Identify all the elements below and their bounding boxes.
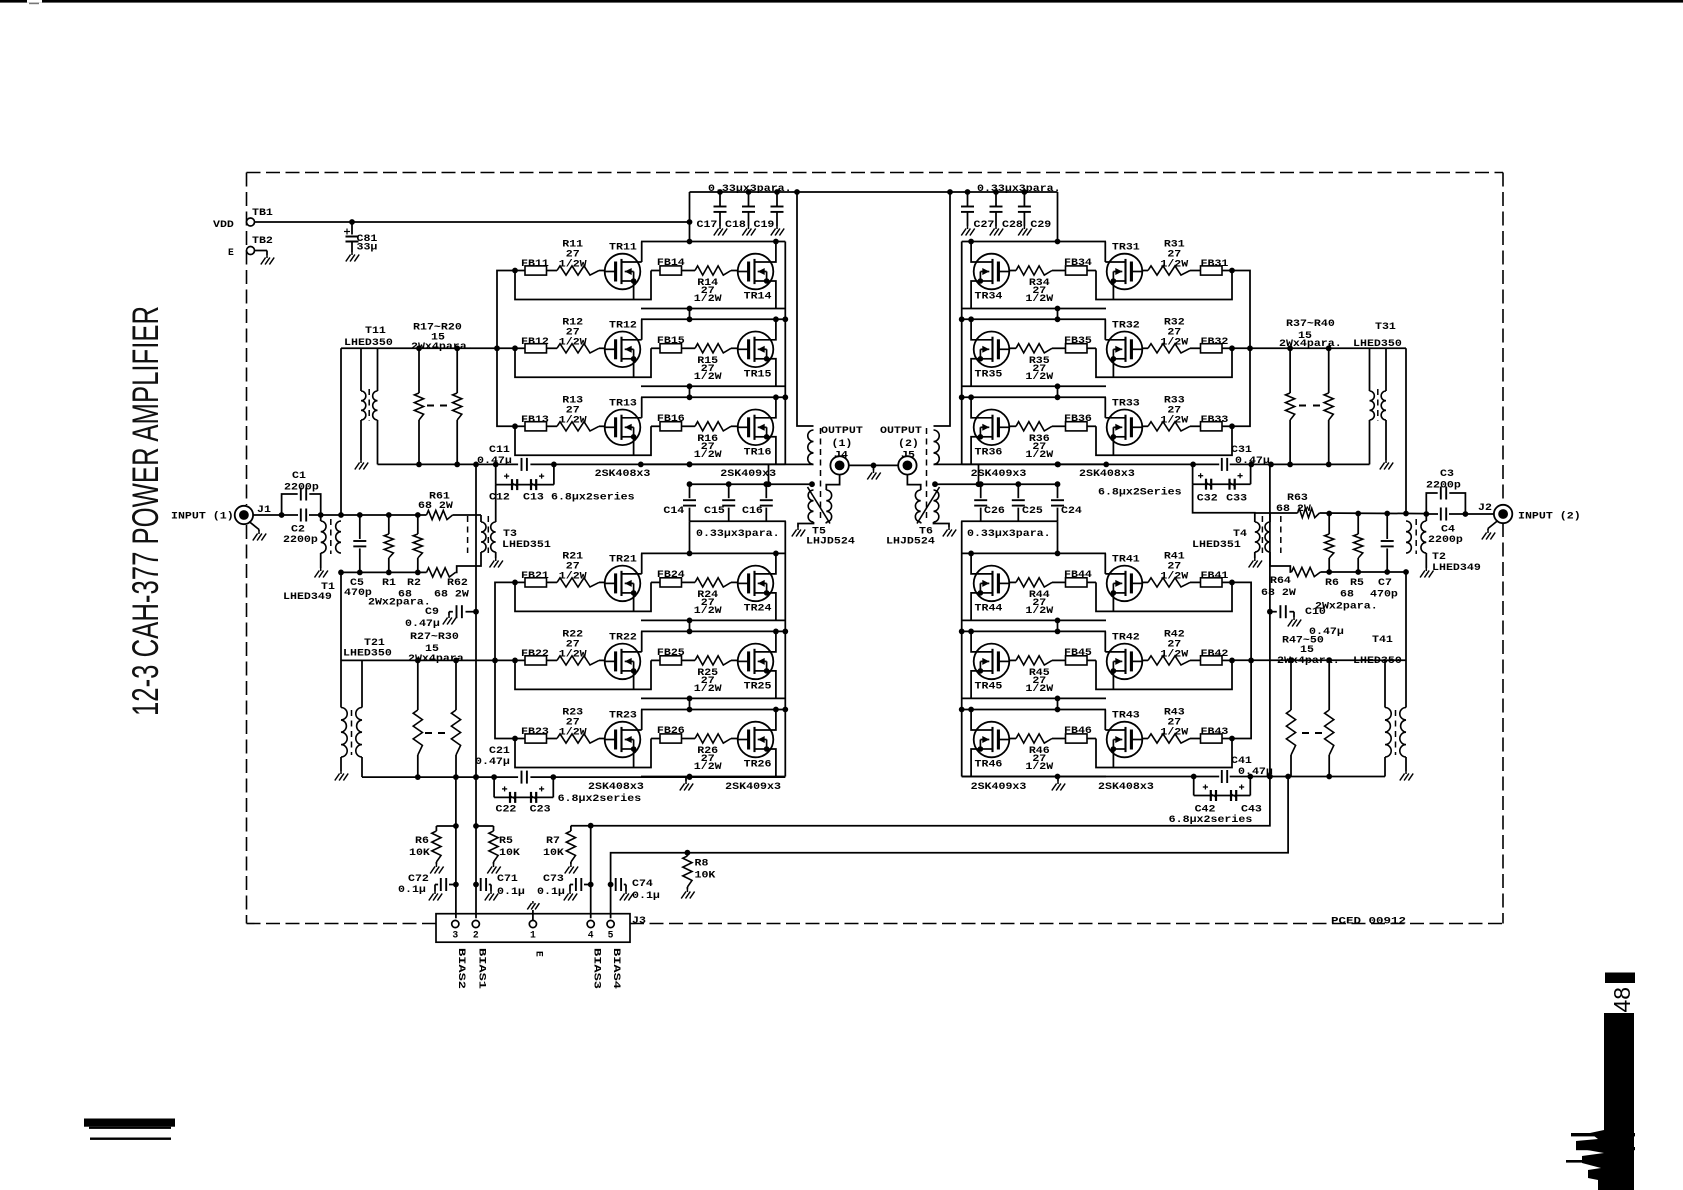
svg-text:C41: C41 (1231, 755, 1252, 766)
capacitor C11 0.47u (477, 444, 527, 471)
node outer bus left lower (782, 629, 788, 713)
label R15 (694, 355, 722, 382)
svg-text:TR35: TR35 (975, 368, 1003, 379)
transformer T5 secondary (826, 490, 831, 522)
label R14 (694, 277, 722, 304)
node row bottom TR24 (687, 618, 693, 624)
ferrite bead FB41 (1201, 570, 1229, 587)
svg-text:1/2W: 1/2W (1160, 336, 1188, 347)
resistor R37 15 (1286, 348, 1295, 465)
svg-text:TR44: TR44 (975, 602, 1003, 613)
resistor R46 27 1/2W (1016, 734, 1052, 743)
label R22 (559, 628, 587, 659)
capacitor C42 6.8u (1203, 785, 1216, 802)
svg-text:FB45: FB45 (1064, 647, 1092, 658)
svg-text:FB13: FB13 (521, 414, 549, 425)
svg-text:C11: C11 (489, 444, 510, 455)
wire TR31 source (1112, 281, 1114, 300)
ground C72 (429, 891, 442, 901)
ferrite bead FB43 (1201, 726, 1229, 743)
transistor TR12 (605, 319, 642, 367)
ground J3 E pin (527, 901, 539, 920)
wire bank links left upper (689, 309, 691, 398)
svg-text:6.8μx2series: 6.8μx2series (558, 793, 642, 804)
svg-text:TR42: TR42 (1112, 631, 1140, 642)
resistor R38 15 (1324, 348, 1333, 465)
node rail taps TR31 (968, 239, 1060, 245)
label C17 (697, 219, 718, 230)
wire row bottom TR26 (641, 776, 785, 778)
dashed border frame right (1502, 173, 1504, 924)
svg-text:10K: 10K (695, 870, 716, 881)
ferrite bead FB32 (1201, 336, 1229, 353)
svg-text:BIAS1: BIAS1 (476, 948, 487, 989)
svg-text:LHED351: LHED351 (1192, 539, 1241, 550)
svg-text:TR22: TR22 (609, 631, 637, 642)
capacitor C12 6.8u (504, 474, 517, 491)
wire TR36 drain (971, 397, 972, 418)
page number 48 (1604, 973, 1635, 1125)
svg-text:C10: C10 (1305, 606, 1326, 617)
transistor TR42 (1105, 631, 1142, 679)
capacitor C33 6.8u (1230, 473, 1243, 490)
wire TR23 source (633, 749, 635, 768)
ferrite bead FB11 (521, 258, 549, 275)
wire R13 to TR13 (599, 425, 605, 427)
capacitor C25 0.33u (1012, 484, 1025, 521)
node rail taps TR41 (968, 551, 1060, 557)
wire TR16 source (767, 437, 776, 465)
label J3 (632, 915, 646, 926)
svg-text:C73: C73 (543, 873, 564, 884)
wire TR25 source (767, 671, 776, 699)
resistor R47 15 (1286, 660, 1295, 776)
label R45 (1025, 667, 1053, 694)
ground TB2 (261, 255, 274, 265)
resistor R2 68 (413, 515, 422, 572)
resistor R18 15 (453, 348, 462, 464)
transformer T6 primary upper (934, 430, 940, 464)
resistor R6 68 (1325, 514, 1334, 573)
label C9 (405, 606, 440, 629)
transformer T31 winding A (1381, 348, 1386, 460)
wire T5 feed vertical (797, 192, 814, 426)
ground J2 (1482, 530, 1495, 540)
resistor R7 10K (566, 826, 590, 864)
capacitor C4 2200p (1426, 508, 1465, 521)
svg-text:LHED350: LHED350 (344, 337, 393, 348)
transformer T4 winding B (1265, 513, 1270, 556)
node upper source bus left (416, 462, 692, 468)
dashed border frame top (247, 172, 1504, 174)
wire TR11 source (633, 281, 635, 300)
node C4 branch left (1423, 511, 1429, 517)
svg-text:1/2W: 1/2W (1160, 727, 1188, 738)
wire BIAS2 line (455, 777, 457, 918)
wire TR33 drain (1104, 397, 1106, 418)
label C10 (1305, 606, 1344, 637)
wire J2 ground stub (1488, 521, 1498, 531)
wire T4 top link (1193, 484, 1255, 522)
ground R7 (565, 864, 578, 874)
label C4 (1428, 524, 1463, 546)
node FB22 gate bus (512, 658, 518, 664)
label PCED 00912 (1331, 916, 1406, 927)
wire C12 C13 loop (496, 465, 554, 484)
label R33 (1160, 394, 1188, 425)
wire TR24 drain (775, 553, 776, 574)
jack J1 INPUT(1) (235, 506, 253, 524)
label BIAS3 rotated (591, 948, 602, 989)
svg-text:FB12: FB12 (521, 336, 549, 347)
transistor TR43 (1105, 710, 1142, 758)
wire FB16 lead (651, 425, 695, 427)
svg-text:0.47μ: 0.47μ (1309, 626, 1344, 637)
svg-text:1/2W: 1/2W (694, 683, 722, 694)
wire TR42 source (1112, 671, 1114, 690)
wire upper source bus left (378, 463, 814, 465)
node C81 tap (349, 219, 355, 225)
svg-text:FB16: FB16 (657, 413, 685, 424)
label R41 (1160, 550, 1188, 581)
capacitor C19 0.33u (771, 192, 784, 226)
transistor TR24 (738, 566, 775, 614)
svg-text:FB24: FB24 (657, 569, 685, 580)
label LHED351 T4 (1192, 539, 1241, 550)
node rail taps TR42 (968, 629, 1060, 635)
ferrite bead FB25 (657, 647, 685, 665)
transformer T11 winding B (373, 348, 378, 464)
wire R22 to TR22 (599, 659, 605, 661)
ground lower bus right (1052, 777, 1065, 791)
svg-text:FB15: FB15 (657, 335, 685, 346)
wire TR32 drain (1104, 319, 1106, 340)
label C26 (984, 505, 1005, 516)
resistor R1 68 (384, 515, 393, 572)
wire R11 to TR11 (599, 270, 605, 272)
svg-text:LHED349: LHED349 (283, 591, 332, 602)
svg-text:OUTPUT: OUTPUT (821, 425, 863, 436)
node row bottom TR34 (1055, 306, 1061, 312)
label C14 (663, 505, 684, 516)
wire FB31 loop (1096, 271, 1232, 300)
capacitor C21 0.47u (475, 745, 527, 784)
transformer T2 winding A (1421, 514, 1426, 568)
wire BIAS4 line (611, 777, 1289, 919)
wire TR34 drain (971, 242, 972, 263)
node rail taps TR33 (968, 394, 1060, 400)
svg-text:68 2W: 68 2W (434, 589, 469, 600)
ferrite bead FB12 (521, 336, 549, 353)
label R63 (1276, 492, 1311, 514)
transistor TR44 (972, 566, 1009, 614)
wire T6 bottoms (921, 522, 949, 527)
label 0.33ux3para top left (708, 183, 792, 194)
label T1 (321, 581, 335, 592)
label R44 (1025, 589, 1053, 616)
svg-text:0.33μx3para.: 0.33μx3para. (977, 183, 1061, 194)
svg-text:LHED350: LHED350 (1353, 655, 1402, 666)
capacitor C18 0.33u (742, 192, 755, 226)
svg-text:3: 3 (452, 930, 458, 941)
svg-text:R7: R7 (546, 835, 560, 846)
svg-text:1/2W: 1/2W (1160, 259, 1188, 270)
wire J2 to C3C4 (1465, 513, 1494, 515)
terminal TB2 E (228, 235, 273, 258)
svg-text:FB41: FB41 (1201, 570, 1229, 581)
wire FB33 loop (1096, 426, 1232, 455)
ground T6 (943, 527, 956, 537)
svg-text:T21: T21 (364, 637, 385, 648)
wire FB25 lead (651, 659, 695, 661)
svg-text:FB26: FB26 (657, 725, 685, 736)
wire TR23 drain (641, 710, 643, 731)
label R37~R40 (1279, 318, 1342, 349)
ground T5 (792, 527, 805, 537)
svg-text:C24: C24 (1061, 505, 1082, 516)
svg-text:(2): (2) (898, 438, 919, 449)
node input bus bottom right (1326, 569, 1409, 575)
wire FB21 lead (515, 581, 557, 583)
resistor R48 15 (1325, 660, 1334, 776)
label C73 (537, 873, 565, 897)
transformer T4 cores (1262, 516, 1280, 553)
label 2SK408x3 upper right (1079, 468, 1135, 479)
wire FB43 loop (1096, 739, 1232, 768)
wire FB14 lead (651, 270, 695, 272)
wire J1 ground stub (249, 522, 259, 532)
label C28 (1002, 219, 1023, 230)
node bus B right (932, 481, 1060, 487)
resistor R61 68 2W (427, 510, 453, 519)
svg-text:FB23: FB23 (521, 726, 549, 737)
node rail taps TR23 (687, 707, 779, 713)
resistor R64 68 2W (1292, 567, 1321, 576)
node row bottom TR26 (687, 774, 693, 780)
svg-text:C17: C17 (697, 219, 718, 230)
wire lower source bus right (962, 776, 1385, 778)
wire J1 to C1C2 (253, 514, 282, 516)
label OUTPUT (2) J5 (880, 425, 922, 461)
svg-text:C12: C12 (489, 492, 510, 503)
capacitor C74 0.1u (611, 878, 626, 891)
resistor R17 15 (414, 348, 423, 464)
svg-text:2200p: 2200p (283, 534, 318, 545)
label C12 C13 (489, 492, 544, 503)
wire row rail TR11 (641, 241, 785, 243)
wire TR15 drain (775, 319, 776, 340)
svg-text:68 2W: 68 2W (1276, 503, 1311, 514)
svg-text:FB44: FB44 (1064, 569, 1092, 580)
wire row rail TR12 (641, 318, 785, 320)
svg-text:68 2W: 68 2W (418, 500, 453, 511)
transistor TR33 (1105, 397, 1142, 445)
svg-text:C2: C2 (291, 524, 305, 535)
wire T41 riser (1405, 572, 1407, 708)
wire FB13 loop (515, 426, 651, 455)
ferrite bead FB35 (1064, 335, 1092, 353)
label R5 10K (499, 835, 520, 858)
wire FB13 lead (515, 425, 557, 427)
transistor TR23 (605, 710, 642, 758)
wire BIAS1 line (475, 465, 477, 918)
svg-text:2SK408x3: 2SK408x3 (588, 781, 644, 792)
svg-text:BIAS2: BIAS2 (456, 948, 467, 989)
label C22 C23 (496, 804, 551, 815)
wire TR32 source (1112, 359, 1114, 378)
ground C71 (485, 891, 498, 901)
wire TR22 source (633, 671, 635, 690)
label C42 C43 (1195, 804, 1263, 815)
wire R16 to TR16 (731, 425, 738, 427)
wire VDD riser left (689, 192, 691, 242)
svg-text:OUTPUT: OUTPUT (880, 425, 922, 436)
wire gate bus upper right (1232, 271, 1250, 427)
node lower source bus right (1191, 774, 1332, 780)
wire C22 C23 loop (494, 778, 553, 797)
label C27 (974, 219, 995, 230)
transistor TR36 (972, 410, 1009, 458)
wire FB43 lead (1190, 738, 1232, 740)
node rail taps TR22 (687, 629, 779, 635)
label 2SK408x3 upper left (595, 468, 651, 479)
svg-text:FB11: FB11 (521, 258, 549, 269)
svg-text:1/2W: 1/2W (559, 336, 587, 347)
wire TR13 source (633, 437, 635, 456)
transistor TR34 (972, 254, 1009, 302)
capacitor C72 0.1u (435, 878, 456, 891)
wire FB34 lead (1052, 270, 1096, 272)
svg-text:1/2W: 1/2W (694, 371, 722, 382)
resistor R28 15 (451, 660, 460, 777)
label 6.8ux2series lower right (1169, 814, 1253, 825)
wire R45 to TR45 (1009, 659, 1016, 661)
label 6.8ux2series upper left (551, 492, 635, 503)
wire bus C left (690, 520, 786, 522)
wire FB23 loop (515, 739, 651, 768)
label T11 (365, 325, 386, 336)
svg-text:T31: T31 (1375, 321, 1396, 332)
transformer T3 winding A (481, 515, 486, 556)
capacitor C2 2200p (282, 509, 321, 522)
svg-text:TB2: TB2 (252, 235, 273, 246)
svg-text:TR46: TR46 (975, 759, 1003, 770)
ferrite bead FB26 (657, 725, 685, 743)
label R17~R20 (411, 322, 474, 353)
capacitor C7 470p (1381, 514, 1394, 573)
transistor TR22 (605, 631, 642, 679)
wire C1 bracket (282, 494, 321, 515)
wire row rail TR33 (962, 396, 1106, 398)
svg-text:C28: C28 (1002, 219, 1023, 230)
wire R26 to TR26 (731, 738, 738, 740)
node gate bus upper right (1247, 345, 1253, 351)
label R6 10K (409, 835, 430, 858)
node upper source bus right (1055, 462, 1332, 468)
svg-text:2Wx4para.: 2Wx4para. (1277, 655, 1340, 666)
ground C9 (443, 615, 456, 625)
svg-text:R37~R40: R37~R40 (1286, 318, 1335, 329)
transformer T6 secondary (915, 490, 920, 522)
wire R36 to TR36 (1009, 425, 1016, 427)
wire TR43 drain (1104, 710, 1106, 731)
node VDD junction (687, 219, 693, 225)
node gate bus lower right (1248, 658, 1254, 664)
svg-text:0.1μ: 0.1μ (497, 886, 525, 897)
wire TR25 drain (775, 631, 776, 652)
svg-text:R1: R1 (382, 577, 396, 588)
svg-text:1/2W: 1/2W (694, 761, 722, 772)
label INPUT (2) (1518, 511, 1581, 522)
wire TR26 drain (775, 710, 776, 731)
transformer T21 winding A (341, 708, 347, 772)
node gate bus upper left (494, 345, 500, 351)
node C1 branch right (318, 512, 324, 518)
svg-text:C19: C19 (754, 219, 775, 230)
node row bottom TR46 (1055, 774, 1061, 780)
transistor TR31 (1105, 242, 1142, 290)
svg-text:1/2W: 1/2W (694, 605, 722, 616)
svg-text:C33: C33 (1226, 493, 1247, 504)
svg-text:12-3 CAH-377 POWER AMPLIFIER: 12-3 CAH-377 POWER AMPLIFIER (124, 306, 166, 716)
wire row rail TR23 (641, 709, 785, 711)
node bus B left (687, 481, 815, 487)
wire row bottom TR46 (962, 776, 1106, 778)
svg-text:T2: T2 (1432, 551, 1446, 562)
ellipsis R17-R20 (427, 405, 447, 407)
ground C27 (961, 226, 974, 236)
transistor TR14 (738, 254, 775, 302)
svg-text:C14: C14 (663, 505, 684, 516)
node rail taps TR13 (687, 394, 779, 400)
wire C42 C43 loop (1194, 777, 1251, 796)
wire T31 riser (1405, 348, 1407, 513)
wire R41 to TR41 (1142, 581, 1148, 583)
wire FB45 lead (1052, 659, 1096, 661)
wire row rail TR41 (962, 552, 1106, 554)
svg-text:T4: T4 (1233, 528, 1247, 539)
node FB12 gate bus (512, 345, 518, 351)
wire TR35 drain (971, 319, 972, 340)
wire TR45 source (971, 671, 980, 699)
transistor TR41 (1105, 553, 1142, 601)
svg-text:FB35: FB35 (1064, 335, 1092, 346)
svg-text:C23: C23 (530, 804, 551, 815)
svg-text:1/2W: 1/2W (1025, 761, 1053, 772)
node C3 branch right (1463, 511, 1469, 517)
resistor R8 10K (683, 853, 692, 889)
svg-text:FB36: FB36 (1064, 413, 1092, 424)
transistor TR35 (972, 332, 1009, 380)
wire TR26 source (767, 749, 776, 777)
label C32 C33 (1197, 493, 1248, 504)
label 0.33ux3para top right (977, 183, 1061, 194)
label 2SK409x3 upper left (720, 468, 776, 479)
wire TR34 source (971, 281, 980, 309)
label C18 (725, 219, 746, 230)
wire bus B riser left (768, 464, 770, 484)
transistor TR46 (972, 722, 1009, 770)
node C1 branch left (279, 512, 285, 518)
wire row rail TR21 (641, 552, 785, 554)
node FB31 gate bus (1229, 268, 1235, 274)
node rail taps TR11 (687, 239, 779, 245)
resistor R32 27 1/2W (1148, 344, 1190, 353)
transformer T6 core (926, 428, 928, 522)
ferrite bead FB31 (1201, 258, 1229, 275)
scan artifact top edge bar (0, 0, 1683, 4)
svg-text:FB46: FB46 (1064, 725, 1092, 736)
